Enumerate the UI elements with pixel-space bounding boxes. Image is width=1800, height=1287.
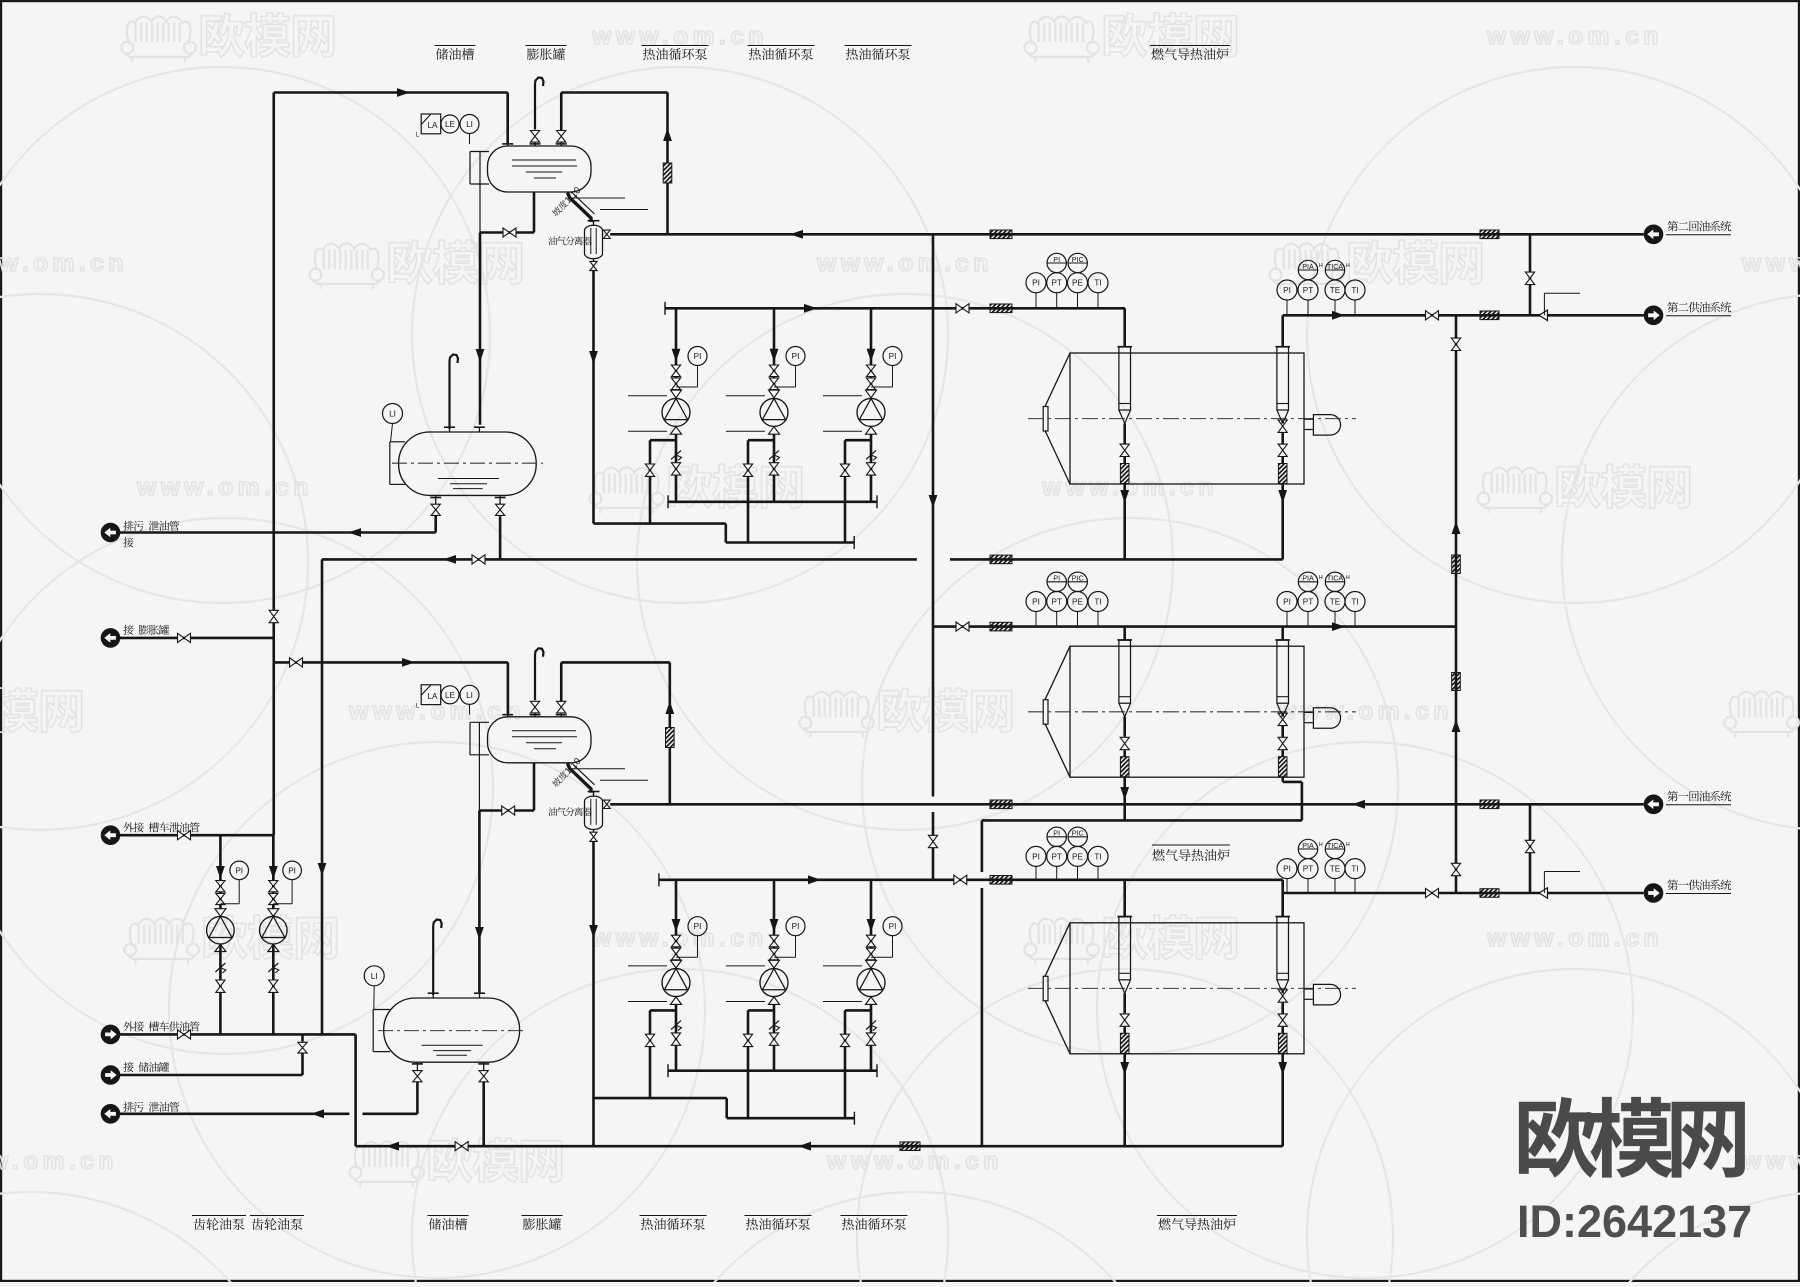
pump suction reducer (769, 390, 780, 398)
watermark om (1477, 467, 1552, 513)
instrument TI (1354, 300, 1356, 315)
svg-text:www.om.cn: www.om.cn (816, 250, 993, 277)
pump discharge reducer (671, 427, 682, 435)
label 齿轮油泵 (250, 1215, 304, 1217)
storage tank 3 LI (364, 966, 384, 986)
svg-text:TICA: TICA (1327, 262, 1344, 271)
instrument TICA (1325, 260, 1344, 279)
expansion tank body (488, 717, 592, 763)
svg-text:www.om.cn: www.om.cn (826, 1148, 1003, 1175)
discharge header A system1 (668, 1069, 877, 1072)
instrument PT (1056, 293, 1058, 309)
svg-text:PIC: PIC (1072, 829, 1084, 838)
pump suction header system 1 (659, 878, 1283, 881)
boiler 1 inlet riser (1123, 308, 1126, 347)
watermark om (349, 1141, 424, 1187)
big logo watermark 欧模网 (1519, 1097, 1597, 1178)
gear pump valves (216, 881, 225, 887)
pump circle (760, 969, 788, 997)
svg-text:LI: LI (466, 691, 473, 700)
suction valves (671, 935, 680, 941)
instrument PI (1047, 253, 1066, 272)
valve on vent line (557, 131, 566, 137)
svg-text:TICA: TICA (1327, 574, 1344, 583)
bypass valve (743, 1034, 752, 1040)
instrument PE (1077, 612, 1079, 627)
tank3 drain valves (413, 1071, 422, 1077)
instrument PT (1307, 612, 1309, 627)
instrument PIC (1068, 253, 1087, 272)
boiler body (1070, 646, 1304, 777)
separator 2 outlet valve (603, 230, 610, 234)
separator 2 drain valve (593, 259, 595, 262)
watermark om (799, 691, 874, 737)
storage tank 3 liquid lines (422, 1044, 483, 1046)
svg-text:H: H (1346, 842, 1350, 848)
instrument PI (1035, 293, 1037, 309)
instrument PI (1286, 300, 1288, 315)
svg-text:PT: PT (1051, 852, 1061, 861)
level instruments LA LE LI system2 (421, 114, 441, 134)
svg-text:LI: LI (371, 972, 378, 981)
label 热油循环泵 (845, 45, 912, 47)
boiler 3 drains to bottom main (1123, 1053, 1126, 1146)
gear pump discharge valve (269, 980, 278, 986)
boiler 3 inlet riser (1123, 880, 1126, 917)
expansion tank bridle (470, 721, 489, 723)
boiler tube2 drain flex connector (1278, 464, 1287, 484)
storage tank 3 bottom nozzles (412, 1063, 423, 1065)
pump discharge with check valve (870, 1004, 873, 1070)
gear pump discharge valve (216, 980, 225, 986)
svg-text:PI: PI (1032, 279, 1040, 288)
pump suction drop (870, 880, 873, 961)
boundary flow symbol supply 1 (1644, 884, 1662, 902)
instrument PI (1047, 572, 1066, 591)
gear pump suction drop (272, 835, 275, 908)
branch return2 to supply2 (1529, 234, 1532, 315)
svg-text:PI: PI (1053, 829, 1060, 838)
svg-text:TI: TI (1351, 865, 1358, 874)
storage tank 2 body (399, 432, 537, 495)
svg-text:LE: LE (445, 691, 456, 700)
tank3 outlet to bottom main (482, 1082, 485, 1146)
oil-gas separator 2 (585, 225, 603, 258)
svg-text:PT: PT (1051, 279, 1061, 288)
pump discharge reducer (671, 997, 682, 1005)
instrument PT (1307, 300, 1309, 315)
boiler heater tube (1277, 917, 1289, 980)
valve on vent nozzle (530, 131, 539, 137)
separator 1 drain valve (593, 829, 595, 832)
valve on vent line 1 (557, 701, 566, 707)
label 接 膨胀罐 (123, 625, 133, 635)
drain valve 1 (502, 806, 509, 815)
svg-text:TE: TE (1330, 597, 1341, 606)
boiler tube2 drain valves (1278, 713, 1287, 719)
supply main system 2 (1283, 314, 1644, 317)
boiler centerline (1028, 711, 1356, 713)
label 膨胀罐 (522, 1215, 563, 1217)
bottom main (356, 1145, 1283, 1148)
pump discharge with check valve (773, 434, 776, 502)
instrument PIC (1068, 827, 1087, 846)
svg-text:PE: PE (1072, 597, 1083, 606)
vertical trunk x=1456 (1455, 315, 1458, 893)
boiler centerline (1028, 987, 1356, 989)
return main system 2 (610, 233, 1644, 236)
bypass valve (645, 1034, 654, 1040)
boiler centerline (1028, 418, 1356, 420)
line to expansion tank (120, 637, 273, 640)
svg-text:PI: PI (1283, 865, 1291, 874)
drain header C system2 (726, 541, 854, 544)
boundary symbol to storage tank (101, 1066, 119, 1084)
boiler 2 inlet riser (1123, 627, 1126, 641)
instrument PI (1286, 612, 1288, 627)
storage tank 2 vent hook (448, 361, 450, 429)
instrument TE (1334, 879, 1336, 893)
boiler heater tube (1277, 347, 1289, 410)
storage tank 2 LI (383, 404, 403, 424)
bypass valve (743, 464, 752, 470)
boiler front cone (1045, 353, 1070, 407)
instrument TE (1334, 300, 1336, 315)
pump discharge with check valve (675, 1004, 678, 1070)
label 燃气导热油炉 (1150, 45, 1230, 47)
svg-text:PE: PE (1072, 279, 1083, 288)
expansion tank 1 drain line (533, 763, 536, 811)
suction header jog to supply 1 (1281, 880, 1284, 893)
pump baseline marks (628, 965, 667, 967)
pump suction reducer (671, 960, 682, 968)
pump discharge with check valve (773, 1004, 776, 1070)
boiler burner (1304, 418, 1313, 420)
label 第二回油系统 (1667, 221, 1678, 232)
pump pressure gauge PI (688, 917, 707, 936)
instrument PT (1307, 879, 1309, 893)
bypass line (650, 439, 676, 442)
boiler tube2 drain valves (1278, 990, 1287, 996)
svg-text:PT: PT (1303, 865, 1313, 874)
watermark om (1269, 243, 1344, 289)
pump discharge with check valve (870, 434, 873, 502)
pump suction reducer (866, 960, 877, 968)
branch return1 to supply1 (1529, 804, 1532, 893)
watermark om (1024, 16, 1099, 62)
svg-text:PI: PI (1283, 597, 1291, 606)
svg-text:TI: TI (1094, 279, 1101, 288)
pump suction drop (675, 880, 678, 961)
boiler 1 outlet riser (1281, 315, 1284, 347)
pump suction reducer (671, 390, 682, 398)
wire vent segment system1 (561, 661, 670, 664)
pump circle (760, 398, 788, 426)
svg-text:PI: PI (889, 922, 897, 931)
svg-text:TI: TI (1351, 597, 1358, 606)
boiler 2 drain collector (982, 819, 1302, 822)
watermark om (1024, 918, 1099, 964)
watermark om (121, 16, 196, 62)
boundary flow symbol supply 2 (1644, 306, 1662, 324)
label 排污 泄油管 bottom (123, 1102, 133, 1112)
boiler 1 tube drains to main (1123, 484, 1126, 560)
boiler tube1 drain valve (1120, 1014, 1129, 1020)
boiler front cone (1045, 923, 1070, 977)
drain header B system2 (594, 522, 726, 525)
bypass line (650, 1009, 676, 1012)
pump baseline marks (628, 395, 667, 397)
svg-text:PI: PI (889, 352, 897, 361)
instrument PI (1035, 866, 1037, 879)
boundary flow symbol return 1 (1644, 795, 1662, 813)
instrument TI (1097, 293, 1099, 309)
boiler tube1 drain flex connector (1120, 464, 1129, 484)
svg-text:www.om.cn: www.om.cn (1741, 250, 1800, 277)
svg-text:PI: PI (792, 352, 800, 361)
svg-text:H: H (1319, 575, 1323, 581)
bypass line (748, 1009, 774, 1012)
gear pump discharge (268, 944, 279, 951)
svg-text:TI: TI (1094, 852, 1101, 861)
discharge valve (769, 463, 778, 469)
trunk valve (269, 610, 278, 616)
supply main system 1 (1283, 892, 1644, 895)
expansion tank top nozzles (502, 143, 513, 145)
svg-text:LA: LA (427, 692, 438, 701)
watermark om (589, 467, 664, 513)
boiler tube2 drain flex connector (1278, 1033, 1287, 1053)
boiler 2 outlet riser (1281, 627, 1284, 641)
separator 1 drain pipe (592, 841, 595, 1146)
pump discharge reducer (866, 997, 877, 1005)
expansion tank top nozzles (502, 714, 513, 716)
label 外接 槽车供油管 (123, 1021, 133, 1031)
bypass valve (645, 464, 654, 470)
storage tank 2 outlet drop (499, 516, 502, 559)
label 接 储油罐 (123, 1062, 133, 1072)
boiler tube1 drain valve (1120, 737, 1129, 743)
svg-text:PE: PE (1072, 852, 1083, 861)
slope label 1 (550, 756, 583, 790)
separator 2 drain pipe (592, 271, 595, 524)
pump suction drop (773, 308, 776, 390)
storage tank 2 liquid lines (438, 478, 499, 480)
oil-gas separator 1 (585, 796, 603, 829)
gear pump (215, 909, 226, 917)
pump pressure gauge PI (786, 917, 805, 936)
svg-text:PIA: PIA (1302, 574, 1314, 583)
separator 2 label (548, 236, 557, 245)
svg-text:www.om.cn: www.om.cn (1741, 1148, 1800, 1175)
pump discharge with check valve (675, 434, 678, 502)
boiler 2 drains (1123, 777, 1126, 821)
vent drop to return header 1 (668, 662, 671, 727)
storage tank 2 bottom nozzles (430, 497, 441, 499)
svg-text:PI: PI (1032, 852, 1040, 861)
pump discharge reducer (769, 997, 780, 1005)
gear pump (268, 909, 279, 917)
svg-text:TE: TE (1330, 286, 1341, 295)
expansion tank 2 drain line (533, 192, 536, 233)
svg-text:LI: LI (466, 120, 473, 129)
wire riser into expansion tank 1 (507, 662, 510, 714)
svg-text:LA: LA (427, 121, 438, 130)
vent hook system1 (535, 648, 544, 700)
pump baseline marks (823, 395, 862, 397)
pump circle (662, 398, 690, 426)
watermark om (124, 918, 199, 964)
bypass valve (840, 464, 849, 470)
drain drop to storage tank 2 (479, 233, 482, 425)
label 外接 槽车泄油管 (123, 822, 133, 832)
svg-text:PIC: PIC (1072, 255, 1084, 264)
svg-text:H: H (1346, 263, 1350, 269)
svg-text:PIC: PIC (1072, 574, 1084, 583)
boiler heater tube (1119, 640, 1131, 703)
svg-text:H: H (1319, 263, 1323, 269)
instrument TI (1354, 879, 1356, 893)
boiler heater tube (1277, 640, 1289, 703)
expansion tank body (488, 146, 592, 192)
svg-text:PI: PI (694, 922, 702, 931)
storage tank 3 centerline (378, 1030, 526, 1032)
gear pump PI (283, 861, 302, 880)
tank3 blowdown to sewer line (416, 1082, 419, 1114)
tanker supply line (120, 1033, 356, 1036)
instrument TICA (1325, 839, 1344, 858)
discharge valve (866, 463, 875, 469)
instrument TI (1097, 866, 1099, 879)
svg-text:PIA: PIA (1302, 841, 1314, 850)
discharge header A system2 (668, 500, 877, 503)
svg-text:PI: PI (792, 922, 800, 931)
storage tank 3 nozzle ticks (428, 992, 439, 994)
svg-text:H: H (1319, 842, 1323, 848)
boiler heater tube (1119, 917, 1131, 980)
discharge valve (769, 1033, 778, 1039)
bypass line (845, 439, 871, 442)
label 热油循环泵 (748, 45, 815, 47)
svg-text:PT: PT (1051, 597, 1061, 606)
separator 1 label (548, 807, 557, 816)
hot oil main system 2 (to boilers) (322, 558, 917, 561)
tank2 blowdown line (434, 515, 437, 532)
bypass valve (840, 1034, 849, 1040)
pump baseline marks (726, 965, 765, 967)
wire vent drop to return header (666, 93, 669, 164)
vertical trunk x=933 (932, 234, 935, 796)
storage tank feed branch (301, 1034, 304, 1041)
instrument TE (1334, 612, 1336, 627)
check valve supply 2 (1539, 310, 1548, 320)
bypass line (748, 439, 774, 442)
boundary symbol blowdown (101, 523, 119, 541)
vertical trunk x=273 (272, 93, 275, 611)
pump pressure gauge PI (883, 917, 902, 936)
boiler burner (1304, 988, 1313, 990)
flex connector (663, 163, 672, 183)
level instruments LA LE LI system1 (421, 685, 441, 705)
svg-text:LE: LE (445, 120, 456, 129)
boiler body (1070, 923, 1304, 1054)
discharge valve (671, 463, 680, 469)
separator 1 outlet valve (603, 800, 610, 804)
label 热油循环泵 (745, 1215, 812, 1217)
suction valves (866, 935, 875, 941)
label 膨胀罐 (526, 45, 567, 47)
valve on vent nozzle 1 (530, 701, 539, 707)
bottom main riser to tanker supply line (354, 1034, 357, 1146)
label 热油循环泵 (640, 1215, 707, 1217)
boundary flow symbol return 2 (1644, 225, 1662, 243)
suction valves (769, 365, 778, 371)
label 储油槽 (428, 1215, 469, 1217)
drain header B system1 (594, 1097, 727, 1100)
svg-text:PI: PI (1283, 286, 1291, 295)
watermark om (1724, 691, 1799, 737)
instrument PIC (1068, 572, 1087, 591)
instrument TICA (1325, 572, 1344, 591)
wire riser into expansion tank 2 (506, 93, 509, 145)
boiler burner (1304, 711, 1313, 713)
watermark om (309, 243, 384, 289)
storage tank 3 vent hook (432, 926, 434, 995)
vertical trunk x=322 (321, 559, 324, 1034)
bypass line (845, 1009, 871, 1012)
instrument PI (1035, 612, 1037, 627)
return main system 1 (610, 803, 1644, 806)
pump circle (857, 969, 885, 997)
tank2 drain valves (431, 504, 440, 510)
pump suction drop (675, 308, 678, 390)
instrument PT (1056, 866, 1058, 879)
instrument PE (1077, 866, 1079, 879)
label 燃气导热油炉 mid (1152, 844, 1230, 846)
wire top line system2 (274, 91, 508, 94)
boiler heater tube (1119, 347, 1131, 410)
pump pressure gauge PI (688, 347, 707, 366)
instrument TI (1354, 612, 1356, 627)
label 储油槽 (435, 45, 476, 47)
pump baseline marks (823, 965, 862, 967)
label 第一回油系统 (1667, 791, 1678, 802)
instrument PT (1056, 612, 1058, 627)
tanker unloading line (120, 834, 273, 837)
pump suction header system 2 (665, 307, 1125, 310)
label 第一供油系统 (1667, 880, 1678, 891)
pump suction reducer (866, 390, 877, 398)
boiler tube1 drain flex connector (1120, 757, 1129, 777)
label 热油循环泵 (642, 45, 709, 47)
storage tank 3 body (384, 998, 520, 1062)
svg-text:ID:2642137: ID:2642137 (1517, 1196, 1752, 1247)
svg-text:TICA: TICA (1327, 841, 1344, 850)
instrument TI (1097, 612, 1099, 627)
boiler front cone (1045, 646, 1070, 700)
boundary symbol tanker supply (101, 1025, 119, 1043)
svg-text:H: H (1346, 575, 1350, 581)
instrument PIA (1298, 839, 1317, 858)
flex connector (666, 728, 675, 748)
svg-text:www.om.cn: www.om.cn (0, 250, 128, 277)
expansion tank liquid lines (512, 730, 576, 732)
suction valves (769, 935, 778, 941)
svg-text:PI: PI (1053, 255, 1060, 264)
instrument PIA (1298, 572, 1317, 591)
label 热油循环泵 (841, 1215, 908, 1217)
boiler tube1 drain valve (1120, 444, 1129, 450)
